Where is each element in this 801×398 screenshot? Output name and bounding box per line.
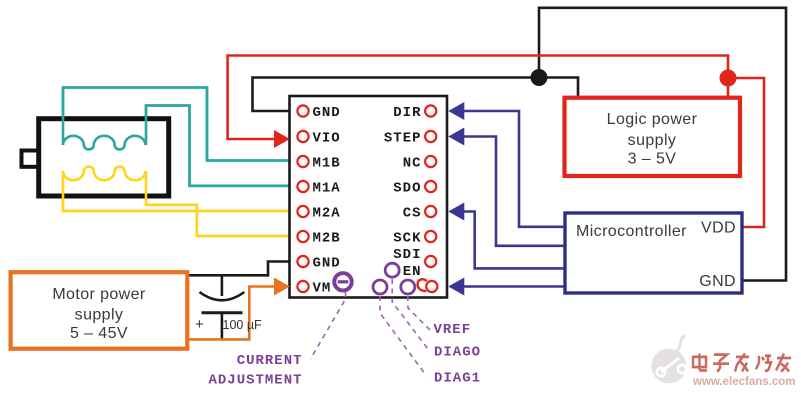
svg-text:NC: NC (403, 156, 422, 172)
svg-text:EN: EN (403, 264, 422, 280)
svg-text:DIR: DIR (393, 105, 421, 121)
svg-text:100 µF: 100 µF (223, 318, 263, 332)
svg-text:supply: supply (75, 307, 124, 324)
svg-text:M1A: M1A (313, 181, 341, 197)
svg-text:DIAG1: DIAG1 (434, 371, 481, 387)
svg-text:ADJUSTMENT: ADJUSTMENT (208, 373, 302, 389)
svg-text:+: + (195, 316, 204, 333)
svg-text:Logic power: Logic power (607, 111, 698, 128)
svg-text:www.elecfans.com: www.elecfans.com (692, 376, 795, 388)
svg-text:VIO: VIO (313, 131, 341, 147)
svg-text:Microcontroller: Microcontroller (576, 223, 687, 240)
svg-text:VDD: VDD (701, 220, 736, 237)
svg-text:DIAGO: DIAGO (434, 345, 481, 361)
svg-text:3 – 5V: 3 – 5V (628, 151, 677, 168)
svg-text:GND: GND (313, 256, 341, 272)
svg-text:CS: CS (403, 206, 422, 222)
svg-text:STEP: STEP (384, 131, 422, 147)
svg-text:Motor power: Motor power (52, 286, 146, 303)
svg-text:SDI: SDI (393, 247, 421, 263)
svg-text:GND: GND (313, 105, 341, 121)
svg-text:VREF: VREF (434, 322, 472, 338)
svg-text:SCK: SCK (393, 231, 421, 247)
svg-text:M2A: M2A (313, 206, 341, 222)
svg-text:CURRENT: CURRENT (237, 353, 303, 369)
svg-text:supply: supply (628, 132, 677, 149)
svg-text:SDO: SDO (393, 181, 421, 197)
svg-text:VM: VM (313, 281, 332, 297)
svg-text:M2B: M2B (313, 231, 341, 247)
svg-text:GND: GND (699, 273, 736, 290)
svg-text:M1B: M1B (313, 156, 341, 172)
svg-text:5 – 45V: 5 – 45V (70, 325, 128, 342)
